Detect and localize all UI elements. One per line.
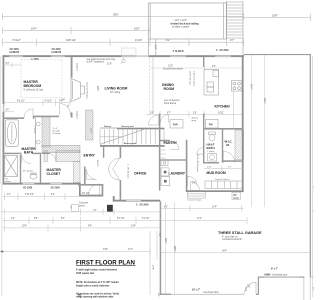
- window seat box: [72, 205, 79, 212]
- garage se pilaster lines: [304, 278, 310, 300]
- stair railing: [100, 127, 117, 129]
- svg-text:7' ceiling: 7' ceiling: [207, 151, 214, 153]
- second floor note: [163, 66, 184, 71]
- svg-text:5'8 1/2": 5'8 1/2": [96, 160, 98, 167]
- svg-text:19'8": 19'8": [272, 13, 278, 17]
- pantry hall door arc: [160, 115, 168, 123]
- corner shower: [5, 156, 18, 177]
- toilet mbath: [30, 173, 37, 179]
- svg-text:Concrete steps: Concrete steps: [187, 198, 201, 201]
- left edge dim line: [1, 56, 2, 296]
- bottom dim row5: [2, 248, 150, 255]
- window F3060: [32, 59, 40, 61]
- closet door arc: [48, 153, 57, 162]
- svg-text:9'0": 9'0": [312, 287, 314, 291]
- svg-text:access: access: [233, 197, 239, 199]
- exterior left wall: [3, 55, 5, 184]
- svg-text:5'10 1/2": 5'10 1/2": [25, 194, 34, 196]
- garage label: [218, 231, 262, 241]
- svg-text:height unless noted otherwise: height unless noted otherwise: [76, 284, 110, 287]
- right edge dim line: [310, 56, 314, 297]
- corner shower label: [5, 179, 11, 183]
- svg-text:Bullnose: Bullnose: [76, 64, 78, 73]
- title block: [76, 260, 136, 299]
- svg-text:4" conc slab on: 4" conc slab on: [222, 236, 238, 238]
- buffet cabinet: [170, 120, 183, 129]
- svg-text:17'4": 17'4": [197, 218, 202, 220]
- svg-text:4'0" pocket: 4'0" pocket: [23, 170, 33, 173]
- shower note: [53, 128, 62, 135]
- pantry walls: [159, 128, 188, 191]
- wall mbr-lr lower: [71, 113, 73, 118]
- garage width dim: [161, 252, 310, 254]
- svg-text:OFFICE: OFFICE: [134, 172, 147, 176]
- pantry door arc: [171, 141, 180, 150]
- svg-text:Concrete: Concrete: [79, 202, 89, 205]
- svg-text:2 - XO 3060: 2 - XO 3060: [216, 50, 229, 52]
- wic2 south wall: [222, 160, 244, 162]
- half bath vanity: [208, 154, 217, 162]
- wall light segment west of deck: [136, 55, 149, 57]
- svg-text:3'6": 3'6": [150, 112, 154, 114]
- right title dims: [150, 231, 157, 295]
- svg-text:porch: porch: [79, 204, 85, 207]
- window living room: [122, 48, 137, 57]
- svg-text:x 3'0" deep island: x 3'0" deep island: [192, 71, 194, 86]
- svg-text:Ref.: Ref.: [209, 124, 213, 126]
- svg-text:5'4 1/2": 5'4 1/2": [142, 218, 150, 220]
- svg-text:3'6": 3'6": [158, 233, 160, 237]
- svg-text:XO 3060: XO 3060: [52, 49, 62, 51]
- svg-text:3'10": 3'10": [154, 45, 156, 50]
- svg-text:CLOSET: CLOSET: [47, 172, 62, 176]
- laundry hall door arc: [188, 176, 198, 186]
- svg-text:2 - 2'8" dbl doors: 2 - 2'8" dbl doors: [127, 164, 130, 178]
- bottom dim row4: [3, 225, 161, 232]
- dimension line top row2: [3, 27, 151, 34]
- dim 2'4 under wall: [3, 63, 22, 68]
- exterior bottom wall master wing: [3, 183, 81, 185]
- wall entry west jog: [79, 183, 103, 197]
- garage east wall: [310, 54, 311, 278]
- master closet label: [47, 168, 62, 176]
- wic2 shelf hatch: [235, 130, 244, 160]
- stair treads: [100, 129, 164, 144]
- svg-text:3'6": 3'6": [59, 100, 63, 102]
- svg-text:19'4": 19'4": [31, 27, 37, 31]
- window 4' slider: [170, 50, 186, 57]
- wic2 west wall: [222, 130, 223, 163]
- svg-text:5'1 3/4": 5'1 3/4": [117, 218, 125, 220]
- svg-text:12'0": 12'0": [168, 66, 173, 68]
- garage service door arc: [245, 282, 257, 294]
- garage west wall: [160, 202, 162, 295]
- svg-text:16'8 1/2": 16'8 1/2": [66, 38, 76, 42]
- kitchen island: [204, 70, 219, 96]
- washer: [161, 168, 169, 176]
- ceiling fan symbol: [121, 57, 125, 64]
- svg-text:rough opening with window orde: rough opening with window order.: [76, 296, 114, 299]
- svg-text:59'0": 59'0": [113, 13, 119, 17]
- svg-text:Floor above: Floor above: [164, 102, 177, 105]
- master bath north wall: [3, 116, 60, 119]
- dashed second floor line: [149, 58, 151, 115]
- svg-text:1'10 1/2": 1'10 1/2": [33, 126, 35, 134]
- svg-text:LAUNDRY: LAUNDRY: [169, 172, 186, 176]
- window xo3060 closet1: [23, 183, 35, 189]
- svg-text:9'8": 9'8": [88, 226, 92, 228]
- wic2 label: [225, 140, 233, 148]
- lockers: [205, 181, 243, 189]
- svg-text:11'8": 11'8": [107, 64, 112, 66]
- window 2-xo3060 dining: [215, 50, 231, 57]
- mudroom garage door arc: [191, 182, 200, 191]
- svg-text:2'10": 2'10": [207, 166, 212, 168]
- master bath door arc: [24, 109, 33, 118]
- half bath west wall: [203, 130, 204, 164]
- svg-text:3'1": 3'1": [7, 194, 11, 196]
- entry closet arc: [87, 170, 97, 180]
- svg-text:Bearing wall: Bearing wall: [122, 125, 135, 128]
- svg-text:1635 square feet: 1635 square feet: [76, 272, 94, 275]
- bottom dim row2: [1, 209, 160, 216]
- dryer: [161, 177, 170, 186]
- svg-text:36'4": 36'4": [222, 251, 227, 253]
- svg-text:2'8": 2'8": [193, 112, 197, 114]
- dim row2b kitchen side: [161, 205, 244, 212]
- svg-text:24'4": 24'4": [249, 84, 252, 89]
- svg-text:5'0": 5'0": [70, 206, 72, 210]
- svg-text:4' SLIDER: 4' SLIDER: [173, 50, 184, 53]
- svg-text:13'10": 13'10": [135, 38, 142, 42]
- svg-text:#2: #2: [226, 143, 230, 147]
- kitchen counter east: [233, 92, 235, 128]
- office west wall: [120, 147, 122, 202]
- svg-text:Second floor above: Second floor above: [163, 68, 184, 71]
- svg-text:NOTE: All windows at 6' 11 3/8: NOTE: All windows at 6' 11 3/8" header: [76, 281, 119, 284]
- svg-text:6'9 1/2": 6'9 1/2": [17, 100, 25, 102]
- bearing wall lower: [100, 145, 165, 147]
- shower fixture circles: [36, 122, 40, 144]
- svg-text:XO 3060: XO 3060: [10, 49, 20, 51]
- hall door arc dining: [149, 115, 159, 125]
- svg-text:5'4": 5'4": [51, 194, 55, 196]
- dim line below top wall: [150, 66, 242, 71]
- pantry shelves: [160, 146, 166, 158]
- shower tile band vertical: [42, 117, 50, 147]
- dining room label: [162, 83, 174, 91]
- deck label: [171, 20, 200, 29]
- svg-text:attic: attic: [233, 194, 236, 197]
- svg-text:15'4": 15'4": [22, 226, 27, 228]
- svg-text:10' ceiling: 10' ceiling: [110, 92, 121, 94]
- svg-text:5'8": 5'8": [34, 218, 38, 220]
- entry door arc: [89, 184, 100, 195]
- svg-text:KITCHEN: KITCHEN: [215, 105, 231, 109]
- svg-text:All windows are noted in inche: All windows are noted in inches. Verify: [76, 292, 120, 295]
- window xo3060 closet2: [50, 183, 62, 189]
- svg-text:4'7": 4'7": [230, 38, 234, 42]
- pantry laundry wall: [160, 159, 185, 160]
- svg-text:Bearing wall: Bearing wall: [124, 142, 137, 145]
- svg-text:2'4": 2'4": [157, 293, 159, 297]
- garage inset wall 9x7: [258, 277, 305, 278]
- svg-text:Overhead door: Overhead door: [272, 274, 288, 277]
- tub: [6, 120, 19, 147]
- entry dim 6'0: [82, 193, 90, 195]
- kitchen south wall: [205, 128, 244, 130]
- svg-text:4'1": 4'1": [164, 206, 168, 208]
- mudroom south wall: [186, 190, 244, 192]
- svg-text:XO 3060: XO 3060: [51, 187, 61, 189]
- svg-text:6'4": 6'4": [61, 218, 65, 220]
- deck stair: [224, 1, 243, 54]
- garage door 16x7 label: [192, 289, 219, 295]
- svg-text:7'9 1/2": 7'9 1/2": [12, 38, 21, 42]
- svg-text:3'4": 3'4": [11, 218, 15, 220]
- svg-text:see detail of great room tray: see detail of great room tray: [87, 58, 116, 61]
- closet shelf hatch top: [44, 151, 48, 162]
- half bath south wall: [203, 162, 219, 164]
- bottom tick mark: [78, 294, 81, 296]
- master bedroom label: [24, 80, 44, 92]
- living dining column line: [152, 57, 154, 113]
- svg-text:MUD ROOM: MUD ROOM: [207, 171, 226, 175]
- svg-text:THREE STALL GARAGE: THREE STALL GARAGE: [218, 231, 262, 235]
- great room tray note: [87, 58, 116, 66]
- hall west wall: [159, 114, 161, 129]
- master bath label: [22, 147, 37, 155]
- svg-text:BATH: BATH: [207, 146, 215, 150]
- svg-text:Bullnose: Bullnose: [76, 112, 78, 121]
- half bath label: [207, 142, 215, 153]
- svg-text:PANTRY: PANTRY: [164, 141, 178, 145]
- living room label: [105, 87, 128, 95]
- window xo3060 master left: [9, 49, 23, 57]
- svg-text:9'2": 9'2": [212, 66, 216, 68]
- wc door arc: [22, 154, 32, 164]
- master bedroom door arc: [60, 104, 71, 115]
- garage south wall: [160, 294, 171, 295]
- svg-text:tile walls: tile walls: [53, 130, 61, 133]
- half bath toilet: [209, 132, 216, 141]
- master tray dashed: [21, 60, 62, 98]
- window xo3060 master right: [51, 49, 65, 57]
- fireplace: [71, 78, 85, 101]
- svg-text:BEDROOM: BEDROOM: [24, 84, 42, 88]
- svg-text:2'4": 2'4": [313, 210, 315, 214]
- garage inset side wall: [258, 277, 259, 295]
- svg-text:ROOM: ROOM: [164, 87, 175, 91]
- svg-text:Overhead door: Overhead door: [204, 291, 220, 294]
- porch post: [107, 205, 113, 212]
- hall east wall stub: [103, 147, 104, 158]
- kitchen arch wall: [203, 114, 204, 130]
- left junction dot: [1, 251, 4, 253]
- shower tile band horizontal: [42, 145, 80, 153]
- steps side box: [232, 192, 241, 199]
- svg-text:21'4": 21'4": [263, 98, 266, 103]
- wic2 door arc: [223, 151, 235, 163]
- svg-text:17'4": 17'4": [128, 249, 133, 251]
- bottom dim row3: [3, 217, 248, 224]
- arched opening note: [192, 117, 198, 123]
- svg-text:Direct vent fireplace: Direct vent fireplace: [86, 83, 89, 100]
- laundry tub: [161, 160, 168, 166]
- concrete steps: [187, 192, 205, 198]
- svg-text:XO 3060: XO 3060: [23, 187, 33, 189]
- svg-text:EGRESS: EGRESS: [10, 52, 20, 54]
- window 2-xo3060 office: [126, 200, 149, 207]
- svg-text:3'0": 3'0": [192, 183, 196, 185]
- left wall window break: [3, 104, 5, 112]
- exterior top wall: [3, 55, 245, 57]
- svg-text:F 3060: F 3060: [32, 59, 40, 61]
- svg-text:at stairs to grade: at stairs to grade: [172, 26, 190, 29]
- fridge: [206, 120, 219, 129]
- stair closet hatch: [86, 110, 94, 140]
- svg-text:16'6": 16'6": [245, 287, 247, 292]
- svg-text:HWH: HWH: [265, 274, 271, 277]
- dim row master mid: [3, 99, 71, 106]
- svg-text:13'10 7/16" wide: 13'10 7/16" wide: [189, 71, 191, 85]
- mudroom top dim row: [204, 166, 244, 172]
- svg-text:16' x 7': 16' x 7': [192, 289, 201, 292]
- svg-text:2 - XO 3060: 2 - XO 3060: [136, 205, 149, 207]
- bottom dim row house1: [3, 193, 81, 200]
- garage north wall: [244, 54, 311, 55]
- garage door 9x7 label: [264, 267, 300, 277]
- svg-text:8'7": 8'7": [167, 112, 171, 114]
- shower glass: [35, 118, 37, 148]
- svg-text:2'6": 2'6": [6, 110, 10, 112]
- svg-text:ENTRY: ENTRY: [84, 154, 96, 158]
- svg-text:9' wall height unless noted ot: 9' wall height unless noted otherwise: [76, 268, 118, 271]
- deck outline: [148, 3, 226, 56]
- svg-text:28'0": 28'0": [173, 246, 176, 251]
- svg-text:opng: opng: [192, 120, 196, 122]
- closet shelf hatch right: [74, 162, 81, 183]
- svg-text:treated deck and railing: treated deck and railing: [171, 22, 200, 25]
- svg-text:9' ceiling at 10' tray: 9' ceiling at 10' tray: [24, 89, 44, 92]
- svg-text:& shower: & shower: [53, 133, 62, 135]
- svg-text:9' x 7': 9' x 7': [271, 267, 278, 270]
- svg-text:30'4": 30'4": [164, 238, 167, 243]
- exterior bottom wall office wing: [113, 196, 161, 202]
- svg-text:LIVING ROOM: LIVING ROOM: [105, 87, 128, 91]
- svg-text:34'8": 34'8": [103, 249, 108, 251]
- svg-text:shower: shower: [5, 180, 11, 183]
- svg-text:13'4": 13'4": [131, 226, 136, 228]
- kitchen west wall: [203, 57, 204, 67]
- svg-text:36" W x 80" H pocket: 36" W x 80" H pocket: [196, 154, 199, 172]
- svg-text:10'11": 10'11": [218, 112, 224, 114]
- entry west wall: [78, 167, 103, 197]
- svg-text:2'4": 2'4": [6, 63, 10, 65]
- wc walls: [3, 153, 42, 183]
- svg-text:22'8": 22'8": [152, 265, 154, 270]
- svg-text:18'4": 18'4": [96, 86, 99, 91]
- line of second floor note: [164, 100, 180, 105]
- svg-text:EGRESS: EGRESS: [52, 52, 62, 54]
- svg-text:Railing: Railing: [104, 126, 112, 128]
- svg-text:2'4 1/2": 2'4 1/2": [45, 100, 53, 102]
- svg-text:Desk: Desk: [173, 124, 178, 126]
- svg-text:6'0 1/2": 6'0 1/2": [82, 193, 90, 195]
- kitchen dim row: [146, 111, 242, 118]
- closet wall: [42, 153, 50, 155]
- dimension line top row3: [3, 39, 244, 47]
- svg-text:Line of Second: Line of Second: [164, 100, 180, 102]
- svg-text:12'4": 12'4": [212, 206, 217, 208]
- svg-text:Linen: Linen: [90, 128, 92, 133]
- svg-text:16'0": 16'0": [134, 27, 140, 31]
- svg-text:9'2": 9'2": [166, 38, 170, 42]
- svg-text:compacted sand fill: compacted sand fill: [222, 238, 242, 241]
- svg-text:24'4": 24'4": [313, 186, 315, 191]
- exterior east wall house: [242, 55, 244, 192]
- svg-text:at 3/4" headroom: at 3/4" headroom: [87, 61, 105, 64]
- wall mbr-lr upper: [71, 57, 73, 78]
- svg-text:7'4": 7'4": [93, 210, 97, 212]
- range: [232, 81, 242, 92]
- half bath door arc: [197, 148, 204, 155]
- office double doors: [109, 158, 120, 180]
- bearing wall upper: [117, 128, 165, 130]
- garage interior dim lines: [166, 55, 265, 294]
- dim 2'6b: [3, 110, 15, 112]
- dimension line top row1 overall width: [3, 13, 311, 21]
- svg-text:3'1": 3'1": [228, 166, 232, 168]
